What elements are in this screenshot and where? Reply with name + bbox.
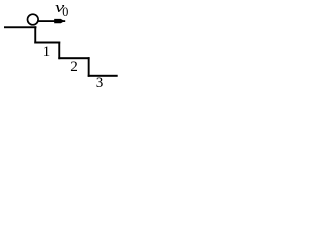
wire: riser 1 <box>34 26 36 43</box>
wire: tread 1 <box>34 42 60 44</box>
wire: top landing floor <box>4 26 36 28</box>
step label 3 <box>96 75 104 90</box>
node v0 label: subscript 0 <box>62 6 68 18</box>
staircase diagram: ball with initial velocity v0 bouncing down steps <box>0 0 123 95</box>
wire: riser 3 <box>88 57 90 77</box>
ball (circle) resting on landing <box>28 14 39 25</box>
arrowhead of v0 arrow <box>54 19 64 23</box>
wire: riser 2 <box>58 42 60 60</box>
node v0 label: v <box>55 1 64 16</box>
wire: tread 3 <box>88 75 118 77</box>
step label 1 <box>43 44 51 59</box>
wire: v0 arrow shaft from ball <box>38 20 66 22</box>
step label 2 <box>70 59 78 74</box>
wire: tread 2 <box>58 57 89 59</box>
